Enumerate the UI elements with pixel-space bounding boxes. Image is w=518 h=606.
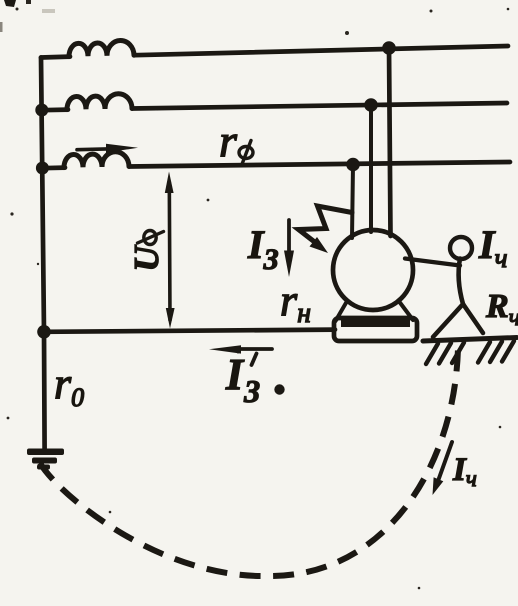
junction dot bus-phase B xyxy=(35,104,48,117)
svg-text:Iч: Iч xyxy=(478,222,507,273)
person right leg xyxy=(463,304,483,333)
neutral wire to motor (bottom horizontal) xyxy=(45,330,335,332)
source winding L1 xyxy=(69,40,134,56)
phase wire A xyxy=(134,46,508,55)
phase wire C left segment xyxy=(41,165,65,170)
junction dot bus-neutral wire xyxy=(37,325,51,339)
earth ground hatching line under person xyxy=(423,338,517,342)
person left leg xyxy=(433,304,463,337)
ground electrode symbol xyxy=(27,449,64,470)
tap wire from phase A to motor xyxy=(389,47,391,236)
motor M frame circle xyxy=(333,230,413,310)
grounding conductor r0 xyxy=(42,332,47,450)
printing dot after label xyxy=(274,384,284,394)
dashed earth-current path xyxy=(40,348,458,576)
junction dot bus-phase C xyxy=(36,162,49,175)
junction dot phase A tap xyxy=(382,41,396,55)
source winding L2 xyxy=(67,94,132,110)
tap wire from phase C to motor xyxy=(352,165,353,239)
motor base plinth xyxy=(334,318,417,341)
earth hatch strokes xyxy=(426,341,514,364)
tap wire from phase B to motor xyxy=(369,105,373,232)
voltage measure arrow U_ф xyxy=(165,172,175,329)
svg-text:r: r xyxy=(219,115,238,166)
junction dot phase B tap xyxy=(364,98,378,112)
person head xyxy=(450,237,472,259)
fault lightning arrow at motor xyxy=(299,206,353,253)
label U_ф xyxy=(127,231,166,272)
source winding L3 xyxy=(64,152,129,168)
svg-text:Iч: Iч xyxy=(452,452,477,491)
phase wire B xyxy=(132,103,507,109)
neutral bus wire (left vertical) xyxy=(41,58,44,333)
neutral current arrow I'_3 xyxy=(209,345,272,353)
svg-text:Rч: Rч xyxy=(485,288,518,331)
svg-text:I3: I3 xyxy=(247,222,279,276)
svg-text:U: U xyxy=(127,245,166,272)
phase wire B left segment xyxy=(41,107,68,112)
earth current arrow I_ч xyxy=(433,442,453,495)
label r_ф xyxy=(219,115,253,166)
phase wire C xyxy=(129,162,510,167)
fault current arrow I_3 xyxy=(284,220,294,277)
person arm touching motor xyxy=(405,259,460,266)
current direction arrow on phase C xyxy=(77,144,138,153)
motor pedestal trapezoid xyxy=(336,302,414,321)
person body xyxy=(459,259,463,305)
svg-text:r0: r0 xyxy=(54,359,84,412)
svg-text:rн: rн xyxy=(280,276,311,329)
phase wire A left segment xyxy=(41,54,70,60)
junction dot phase C tap xyxy=(346,158,360,172)
